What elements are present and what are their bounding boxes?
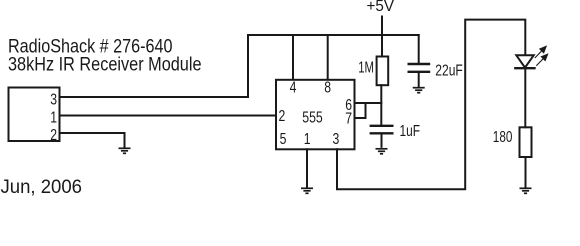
svg-text:555: 555 <box>302 109 323 126</box>
capacitor C2 1uF <box>371 126 393 134</box>
resistor R1 1M <box>377 57 389 86</box>
svg-text:1: 1 <box>50 110 57 127</box>
wire: 22uF bottom to ground <box>418 73 420 87</box>
wire: rail to 555 pin 8 <box>327 35 329 80</box>
svg-text:1M: 1M <box>358 60 374 77</box>
ground (module pin 2) <box>119 148 131 153</box>
wire: 180 resistor to ground <box>525 157 527 187</box>
ground (22uF) <box>413 88 425 93</box>
svg-text:22uF: 22uF <box>435 63 463 80</box>
svg-text:2: 2 <box>279 108 286 125</box>
svg-text:3: 3 <box>50 91 57 108</box>
svg-text:4: 4 <box>290 79 297 96</box>
wire: module pin 3 to +5V rail riser <box>60 35 249 97</box>
op-amp/timer U1 555 box <box>276 80 355 150</box>
ground (180 resistor) <box>520 188 532 193</box>
resistor R2 180 <box>520 127 532 157</box>
IR receiver module box <box>9 88 60 142</box>
LED light arrows <box>535 46 548 66</box>
svg-text:5: 5 <box>280 131 287 148</box>
svg-text:+5V: +5V <box>367 0 395 15</box>
wire: +5V drop through rail to 1M resistor top <box>381 17 383 57</box>
wire: rail to 22uF capacitor <box>418 35 420 64</box>
wire: 555 pin 1 to ground <box>306 149 308 186</box>
wire: 555 pin 3 output loop to LED <box>337 20 525 190</box>
wire: 555 pin 6 stub <box>355 102 382 104</box>
svg-text:1uF: 1uF <box>400 123 421 140</box>
wire: module pin 1 to 555 pin 2 <box>60 115 277 117</box>
svg-text:3: 3 <box>333 131 340 148</box>
svg-text:38kHz IR Receiver Module: 38kHz IR Receiver Module <box>8 54 202 76</box>
svg-text:7: 7 <box>345 110 352 127</box>
LED D1 <box>515 55 534 68</box>
wire: +5V rail <box>248 34 419 36</box>
svg-text:2: 2 <box>50 127 57 144</box>
ground (1uF) <box>376 149 388 154</box>
wire: rail to 555 pin 4 <box>292 35 294 80</box>
wire: 555 pin 7 stub joining pin 6 <box>355 103 366 118</box>
svg-text:180: 180 <box>493 129 513 146</box>
ground (555 pin 1) <box>301 188 313 193</box>
svg-text:8: 8 <box>324 79 331 96</box>
svg-text:Jun, 2006: Jun, 2006 <box>1 176 83 198</box>
wire: module pin 2 to ground <box>60 133 125 147</box>
wire: LED cathode to 180 resistor <box>524 68 526 127</box>
svg-text:1: 1 <box>304 131 311 148</box>
capacitor C1 22uF <box>409 64 429 72</box>
wire: 1M bottom through pin6 node to 1uF top <box>380 85 382 125</box>
wire: 1uF bottom to ground <box>381 134 383 147</box>
